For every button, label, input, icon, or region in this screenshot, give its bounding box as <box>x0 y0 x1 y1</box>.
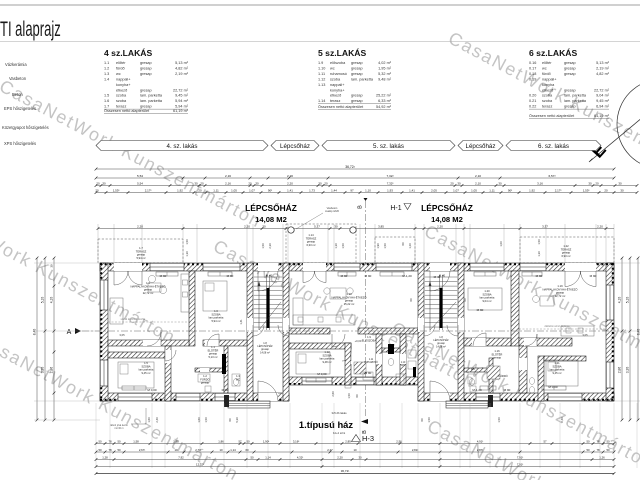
unit5 wall wc top <box>382 348 400 352</box>
black accents <box>388 344 394 354</box>
unit6 wall szoba <box>511 271 519 346</box>
door opening stair1 entrance <box>258 263 278 271</box>
svg-text:2,17²: 2,17² <box>555 188 562 192</box>
svg-text:TI alaprajz: TI alaprajz <box>0 17 61 41</box>
svg-text:gresap: gresap <box>201 381 210 385</box>
svg-text:M 0,00: M 0,00 <box>548 385 558 389</box>
svg-text:0.19: 0.19 <box>529 77 536 81</box>
svg-text:gresap: gresap <box>140 105 152 109</box>
svg-text:14,08 M2: 14,08 M2 <box>255 215 287 224</box>
label bar segment 4. sz. lakás <box>96 141 268 151</box>
svg-text:gresap: gresap <box>140 72 152 76</box>
bottom dimension row 1 <box>96 443 614 445</box>
svg-text:8,40: 8,40 <box>33 329 37 336</box>
label B marker bottom <box>361 419 368 424</box>
svg-text:RUHAMOSÓ: RUHAMOSÓ <box>364 361 378 364</box>
svg-text:2,89: 2,89 <box>345 439 351 443</box>
svg-text:wc: wc <box>116 72 121 76</box>
svg-text:terasz: terasz <box>330 99 340 103</box>
furniture unit4 kitchen counter <box>181 274 189 312</box>
svg-text:M 40: M 40 <box>434 275 441 279</box>
svg-text:étkező: étkező <box>542 88 553 92</box>
svg-text:25,22 m²: 25,22 m² <box>344 302 355 306</box>
svg-text:7,91¹: 7,91¹ <box>517 455 523 459</box>
svg-text:3,16²: 3,16² <box>293 439 299 443</box>
terrace 1.7 (unit 4) <box>98 239 183 263</box>
svg-text:3x5 db lakás: 3x5 db lakás <box>331 411 347 415</box>
furniture unit6 bed szoba1.21 <box>546 360 578 386</box>
svg-text:2,86: 2,86 <box>618 367 622 374</box>
unit6 wall wc top <box>464 368 489 372</box>
svg-text:lam. parketta: lam. parketta <box>564 99 587 103</box>
svg-text:fürdő: fürdő <box>116 66 125 70</box>
svg-text:gresap: gresap <box>351 94 363 98</box>
outer wall right <box>606 263 614 401</box>
svg-text:terasz: terasz <box>116 105 126 109</box>
svg-text:3,16: 3,16 <box>537 181 543 185</box>
unit5 shower hatch <box>354 362 366 374</box>
svg-text:30: 30 <box>262 224 266 228</box>
svg-text:1,73: 1,73 <box>309 188 315 192</box>
svg-text:1.11: 1.11 <box>369 359 374 361</box>
svg-text:1.2: 1.2 <box>104 66 109 70</box>
svg-text:H-3: H-3 <box>362 434 374 443</box>
svg-text:14,08 m²: 14,08 m² <box>436 345 446 348</box>
svg-text:2,10: 2,10 <box>475 181 481 185</box>
svg-text:1,93: 1,93 <box>387 188 393 192</box>
extension lines above plan <box>97 224 99 262</box>
unit5 wall hall right <box>376 334 382 385</box>
svg-text:30: 30 <box>358 455 362 459</box>
svg-text:Összesen nettó alapterület: Összesen nettó alapterület <box>529 114 575 118</box>
svg-text:20: 20 <box>198 188 202 192</box>
svg-text:1,00: 1,00 <box>499 241 503 247</box>
svg-text:1,86: 1,86 <box>218 439 224 443</box>
svg-text:étkező: étkező <box>330 94 341 98</box>
svg-text:5,54: 5,54 <box>137 174 143 178</box>
svg-text:gresap: gresap <box>140 88 152 92</box>
svg-text:4. sz. lakás: 4. sz. lakás <box>167 143 198 150</box>
svg-text:3,30: 3,30 <box>626 367 630 374</box>
unit5 wall szoba top <box>289 343 351 349</box>
radiators under windows <box>156 272 178 276</box>
svg-text:2,30: 2,30 <box>268 243 272 249</box>
svg-text:csalép t2/20: csalép t2/20 <box>325 209 340 213</box>
svg-text:LÉPCSŐHÁZ: LÉPCSŐHÁZ <box>245 202 297 213</box>
furniture unit5 dining table <box>330 288 346 299</box>
svg-text:gresap: gresap <box>564 61 576 65</box>
svg-text:9,48 m²: 9,48 m² <box>378 77 392 81</box>
svg-text:Beton: Beton <box>12 92 23 97</box>
svg-text:1.6: 1.6 <box>104 99 109 103</box>
svg-text:2,20: 2,20 <box>337 455 343 459</box>
window <box>334 263 360 271</box>
svg-text:1,92: 1,92 <box>177 188 183 192</box>
svg-text:20: 20 <box>200 181 204 185</box>
svg-text:9,45 m²: 9,45 m² <box>596 99 610 103</box>
outer wall top <box>100 263 614 271</box>
svg-text:50: 50 <box>606 439 610 443</box>
svg-text:konyha: konyha <box>542 83 555 87</box>
svg-text:M 90: M 90 <box>504 388 511 392</box>
svg-text:30: 30 <box>620 188 624 192</box>
svg-text:5,94 m²: 5,94 m² <box>175 99 189 103</box>
svg-text:gresap: gresap <box>140 61 152 65</box>
svg-text:1,50: 1,50 <box>261 243 265 249</box>
door arc stair2 entrance <box>430 271 450 291</box>
svg-text:szoba: szoba <box>330 77 341 81</box>
svg-text:3,37: 3,37 <box>542 224 548 228</box>
unit4 wall kitchen <box>189 271 195 346</box>
window <box>176 393 200 401</box>
svg-text:gresap: gresap <box>140 66 152 70</box>
svg-text:1,50: 1,50 <box>347 393 351 399</box>
svg-text:1,53²: 1,53² <box>113 188 120 192</box>
svg-text:1,44: 1,44 <box>331 188 337 192</box>
svg-text:50: 50 <box>98 439 102 443</box>
svg-text:5,10: 5,10 <box>626 297 630 304</box>
svg-text:1,07: 1,07 <box>453 188 459 192</box>
interior dashed guides <box>108 321 189 323</box>
svg-text:1.14: 1.14 <box>318 99 325 103</box>
window <box>376 263 412 271</box>
porch steps stair1 <box>228 401 270 408</box>
svg-text:M 40: M 40 <box>266 274 273 278</box>
unit4 wall szoba right <box>165 346 171 401</box>
svg-text:36,72¹: 36,72¹ <box>341 469 350 473</box>
svg-text:1,50: 1,50 <box>341 243 345 249</box>
window <box>520 263 546 271</box>
svg-text:2,19 m²: 2,19 m² <box>175 72 189 76</box>
svg-text:9,45 m²: 9,45 m² <box>175 94 189 98</box>
window <box>470 263 504 271</box>
svg-text:+0,00: +0,00 <box>355 339 362 343</box>
svg-text:gresap: gresap <box>351 72 363 76</box>
svg-text:1.10: 1.10 <box>318 66 325 70</box>
label bar segment Lépcsőház <box>458 141 503 151</box>
svg-text:1,60: 1,60 <box>197 417 201 423</box>
svg-text:1,58: 1,58 <box>133 439 139 443</box>
svg-text:50: 50 <box>250 455 254 459</box>
svg-text:1.13: 1.13 <box>318 83 325 87</box>
svg-text:6,93 m²: 6,93 m² <box>561 254 570 258</box>
svg-text:9,04 m²: 9,04 m² <box>596 94 610 98</box>
svg-text:6,57²: 6,57² <box>548 174 555 178</box>
section line <box>82 330 616 332</box>
outer wall left <box>100 263 108 401</box>
svg-text:60: 60 <box>228 418 232 421</box>
furniture unit5 kitchen counter L <box>293 298 303 325</box>
svg-text:1,07: 1,07 <box>249 188 255 192</box>
svg-text:1,11: 1,11 <box>213 188 219 192</box>
furniture unit4 dining <box>148 275 155 282</box>
svg-text:90²: 90² <box>268 188 272 192</box>
stairs stairwell 1 <box>254 276 282 278</box>
svg-text:gresap: gresap <box>564 72 576 76</box>
dimension row main spans <box>96 177 614 179</box>
furniture unit4 bed szoba1.6 <box>203 281 227 311</box>
door arc french unit4 <box>114 271 128 285</box>
svg-text:1,11: 1,11 <box>489 188 495 192</box>
svg-text:22,72 m²: 22,72 m² <box>143 291 154 295</box>
svg-text:5,94 m²: 5,94 m² <box>136 256 145 260</box>
svg-text:20: 20 <box>324 181 328 185</box>
svg-text:57: 57 <box>543 439 547 443</box>
svg-text:20: 20 <box>604 188 608 192</box>
svg-text:XPS hőszigetelés: XPS hőszigetelés <box>4 141 36 146</box>
dimension row terrace <box>98 228 614 230</box>
svg-text:M 0,00: M 0,00 <box>147 388 157 392</box>
svg-text:1,30: 1,30 <box>185 251 189 257</box>
svg-text:2,20: 2,20 <box>287 174 293 178</box>
bottom dimension row total <box>96 473 614 475</box>
svg-text:0.16: 0.16 <box>529 61 536 65</box>
svg-text:M 90: M 90 <box>590 274 597 278</box>
dimension row detail spans <box>96 192 637 194</box>
svg-text:1.10: 1.10 <box>401 362 406 364</box>
svg-text:30: 30 <box>334 224 338 228</box>
svg-text:0.20: 0.20 <box>529 94 536 98</box>
svg-text:Lépcsőház: Lépcsőház <box>466 143 496 150</box>
svg-text:6 sz.LAKÁS: 6 sz.LAKÁS <box>529 48 577 58</box>
svg-text:5,32 m²: 5,32 m² <box>378 72 392 76</box>
header rule <box>0 41 640 43</box>
svg-text:WC: WC <box>401 365 405 367</box>
svg-text:50: 50 <box>98 448 102 452</box>
svg-text:50: 50 <box>586 448 590 452</box>
interior door cuts <box>247 318 253 332</box>
terrace 1.22 (unit 6) <box>520 237 614 263</box>
svg-text:B: B <box>358 205 364 209</box>
svg-text:20: 20 <box>595 181 599 185</box>
svg-text:60: 60 <box>355 394 359 397</box>
unit5 toilet <box>388 358 394 365</box>
svg-text:1,30: 1,30 <box>537 251 541 257</box>
svg-text:gresap: gresap <box>351 66 363 70</box>
svg-text:gresap: gresap <box>564 66 576 70</box>
svg-text:mit 30 m: mit 30 m <box>114 427 123 430</box>
window <box>100 360 108 386</box>
furniture unit6 bed szoba0.20 <box>468 288 502 310</box>
svg-text:60: 60 <box>420 418 424 421</box>
svg-text:4,32¹: 4,32¹ <box>297 455 303 459</box>
svg-text:lam. parketta: lam. parketta <box>140 99 163 103</box>
svg-text:4,91¹: 4,91¹ <box>477 439 483 443</box>
window <box>606 362 614 388</box>
outer wall bottom right <box>418 393 614 401</box>
svg-text:5,13 m²: 5,13 m² <box>596 61 610 65</box>
svg-text:30: 30 <box>618 181 622 185</box>
svg-text:4,82 m²: 4,82 m² <box>596 72 610 76</box>
window <box>356 377 374 385</box>
svg-text:2,81²: 2,81² <box>412 448 418 452</box>
svg-text:M 90: M 90 <box>365 371 372 375</box>
svg-text:1,28: 1,28 <box>102 455 108 459</box>
svg-text:wc: wc <box>330 66 335 70</box>
svg-text:1.típusú ház: 1.típusú ház <box>299 419 353 430</box>
svg-text:78: 78 <box>108 439 112 443</box>
door opening french unit6 <box>565 263 596 271</box>
svg-text:EPS hőszigetelés: EPS hőszigetelés <box>4 106 36 111</box>
svg-text:2,87¹: 2,87¹ <box>477 448 483 452</box>
svg-text:7,32²: 7,32² <box>386 174 393 178</box>
svg-text:wc: wc <box>542 66 547 70</box>
svg-text:4,82 m²: 4,82 m² <box>175 66 189 70</box>
svg-text:fsz+2 szint: fsz+2 szint <box>333 431 346 435</box>
svg-text:30: 30 <box>498 181 502 185</box>
svg-text:M 90: M 90 <box>365 274 372 278</box>
svg-text:30: 30 <box>50 264 54 267</box>
unit6 wall szoba2 top <box>544 356 586 361</box>
svg-text:9,45 m²: 9,45 m² <box>552 371 561 375</box>
unit5 wall szoba right <box>345 343 351 385</box>
svg-text:lam. parketta: lam. parketta <box>140 94 163 98</box>
svg-text:1,14: 1,14 <box>265 455 271 459</box>
svg-text:78: 78 <box>596 448 600 452</box>
svg-text:3,05: 3,05 <box>582 333 588 337</box>
unit6 wall mid b <box>519 338 572 346</box>
unit4 wall mid a <box>108 340 189 346</box>
svg-text:1,41: 1,41 <box>239 319 243 325</box>
svg-text:1,05: 1,05 <box>231 188 237 192</box>
svg-text:30: 30 <box>457 181 461 185</box>
svg-text:4,10: 4,10 <box>618 297 622 304</box>
svg-text:2,10: 2,10 <box>475 174 481 178</box>
bath fixtures <box>198 374 210 382</box>
svg-text:1.7: 1.7 <box>104 105 109 109</box>
svg-text:2,40: 2,40 <box>155 417 159 423</box>
svg-text:1,10: 1,10 <box>365 188 371 192</box>
svg-text:1.12: 1.12 <box>318 77 325 81</box>
svg-text:1,30: 1,30 <box>334 243 338 249</box>
svg-text:étkező: étkező <box>116 88 127 92</box>
svg-text:2,05: 2,05 <box>431 188 437 192</box>
svg-text:7,91¹: 7,91¹ <box>517 462 523 466</box>
svg-text:20: 20 <box>248 181 252 185</box>
svg-text:előtér: előtér <box>542 61 552 65</box>
svg-text:gresap: gresap <box>493 356 502 360</box>
window <box>100 280 108 310</box>
svg-text:1,95 m²: 1,95 m² <box>378 66 392 70</box>
svg-text:2,20: 2,20 <box>244 224 250 228</box>
svg-text:90²: 90² <box>508 188 512 192</box>
svg-text:3,30: 3,30 <box>41 367 45 374</box>
svg-text:5,94 m²: 5,94 m² <box>175 105 189 109</box>
door opening stair2 bottom <box>430 393 450 401</box>
svg-text:Összesen nettó alapterület: Összesen nettó alapterület <box>318 105 364 109</box>
svg-text:5,13 m²: 5,13 m² <box>208 355 217 359</box>
svg-text:2,27: 2,27 <box>327 448 333 452</box>
svg-text:10: 10 <box>174 448 178 452</box>
svg-text:1,50: 1,50 <box>204 417 208 423</box>
svg-text:0.22: 0.22 <box>529 105 536 109</box>
svg-text:2,19 m²: 2,19 m² <box>596 66 610 70</box>
unit6 wall szoba2 left <box>538 356 544 401</box>
window <box>118 393 152 401</box>
svg-text:61,19 m²: 61,19 m² <box>594 114 610 118</box>
svg-text:Lépcsőház: Lépcsőház <box>280 143 310 150</box>
window <box>476 393 500 401</box>
svg-text:1,90: 1,90 <box>376 243 380 249</box>
svg-text:M 90: M 90 <box>536 274 543 278</box>
furniture unit6 kitchen counter <box>561 326 594 336</box>
svg-text:2,20: 2,20 <box>287 181 293 185</box>
unit6 wall mid a <box>464 338 511 346</box>
svg-text:szoba: szoba <box>542 99 553 103</box>
bottom extension lines <box>95 403 97 468</box>
insulation dentils outer edge <box>100 263 614 265</box>
svg-text:30: 30 <box>255 181 259 185</box>
bottom dimension row 4 <box>96 466 614 468</box>
svg-text:10: 10 <box>353 448 357 452</box>
terrace small (unit 5b) <box>375 237 415 263</box>
dimension row total 36,72 <box>96 168 614 170</box>
north arrow circle <box>617 79 640 169</box>
svg-text:M 90: M 90 <box>227 274 234 278</box>
right vertical dimension chain <box>621 258 623 420</box>
svg-text:nappali+: nappali+ <box>330 83 345 87</box>
svg-text:1.1: 1.1 <box>104 61 109 65</box>
svg-text:30: 30 <box>102 181 106 185</box>
svg-text:6. sz. lakás: 6. sz. lakás <box>538 143 569 150</box>
window <box>548 393 582 401</box>
unit4 wall bath top <box>195 368 224 372</box>
svg-text:60: 60 <box>245 448 249 452</box>
label bar segment Lépcsőház <box>271 141 319 151</box>
svg-text:2,73: 2,73 <box>195 448 201 452</box>
svg-text:2,20: 2,20 <box>437 224 443 228</box>
svg-text:5,94 m²: 5,94 m² <box>211 319 220 323</box>
svg-text:60: 60 <box>409 298 413 301</box>
svg-text:54,92 m²: 54,92 m² <box>376 105 392 109</box>
bottom dimension row 3 <box>96 459 614 461</box>
svg-text:4 sz.LAKÁS: 4 sz.LAKÁS <box>104 48 152 58</box>
svg-text:M-1,20: M-1,20 <box>402 274 412 278</box>
terrace 1.14 (unit 5) <box>286 224 356 263</box>
svg-text:78: 78 <box>108 448 112 452</box>
svg-text:0.21: 0.21 <box>529 99 536 103</box>
right extension lines <box>614 262 640 264</box>
svg-text:1,41: 1,41 <box>409 188 415 192</box>
unit4 wall bath <box>224 346 228 393</box>
svg-text:1,50: 1,50 <box>537 239 541 245</box>
svg-text:dülöszön szmrt düpléma: dülöszön szmrt düpléma <box>545 325 571 328</box>
svg-text:5,13 m²: 5,13 m² <box>175 61 189 65</box>
svg-text:3,85: 3,85 <box>378 224 384 228</box>
svg-text:9,48 m²: 9,48 m² <box>322 360 331 364</box>
unit6 shower hatch <box>487 366 500 379</box>
svg-text:1,05: 1,05 <box>471 188 477 192</box>
label bar segment 6. sz. lakás <box>506 141 601 151</box>
svg-text:1,90¹: 1,90¹ <box>263 439 269 443</box>
svg-text:10: 10 <box>219 448 223 452</box>
svg-text:50: 50 <box>117 448 121 452</box>
svg-text:50: 50 <box>117 439 121 443</box>
svg-text:1,60: 1,60 <box>147 417 151 423</box>
svg-text:1.5: 1.5 <box>104 94 109 98</box>
stairwell 1 wall left <box>247 263 253 401</box>
unit5 washer <box>408 350 416 358</box>
svg-text:2,17²: 2,17² <box>145 188 152 192</box>
stairwell 2 wall left <box>418 263 424 401</box>
svg-text:2,16: 2,16 <box>225 174 231 178</box>
unit4 wall szoba top <box>108 352 165 358</box>
svg-text:szoba: szoba <box>116 94 127 98</box>
svg-text:14,08 M2: 14,08 M2 <box>431 215 463 224</box>
svg-text:60: 60 <box>463 298 467 301</box>
svg-text:22,72 m²: 22,72 m² <box>173 88 189 92</box>
svg-text:Vázkerámia: Vázkerámia <box>5 62 27 67</box>
